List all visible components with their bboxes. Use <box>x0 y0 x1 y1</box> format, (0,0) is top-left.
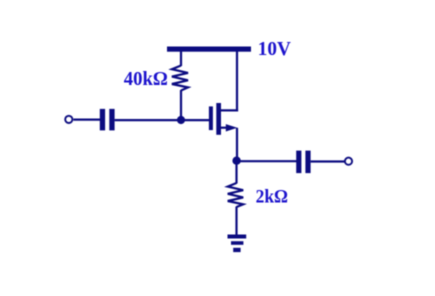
capacitor C2 right plate <box>305 151 310 174</box>
svg-text:2kΩ: 2kΩ <box>256 187 288 208</box>
transistor Q1 source arrow <box>226 124 238 131</box>
svg-text:40kΩ: 40kΩ <box>124 68 168 90</box>
transistor Q1 channel bar <box>216 103 221 135</box>
transistor Q1 drain lead <box>221 109 239 111</box>
wire node to resistor R2 <box>235 162 237 184</box>
wire rail to resistor R1 <box>180 51 182 66</box>
node source junction dot <box>232 157 240 165</box>
svg-text:10V: 10V <box>258 39 291 60</box>
capacitor C1 right plate <box>109 109 114 130</box>
resistor R2 2k zigzag <box>228 183 244 207</box>
power rail VDD bar <box>167 47 251 52</box>
wire drain to rail <box>236 51 238 112</box>
transistor Q1 gate bar <box>209 106 213 130</box>
wire input terminal to capacitor C1 <box>73 118 100 120</box>
transistor Q1 source lead <box>221 127 228 129</box>
resistor R1 40k zigzag <box>172 66 188 91</box>
wire node to capacitor C2 <box>237 160 297 162</box>
label 2kOhm <box>256 187 288 208</box>
label 10V <box>258 39 291 60</box>
ground bar 2 <box>231 241 243 245</box>
wire C1 to gate of Q1 <box>115 119 210 121</box>
wire source to output node <box>236 128 238 162</box>
label 40kOhm <box>124 68 168 90</box>
wire R2 to ground <box>235 207 237 236</box>
ground bar 1 <box>228 235 247 239</box>
capacitor C2 left plate <box>296 151 301 174</box>
input terminal open circle <box>65 116 72 123</box>
wire R1 to gate node <box>180 90 182 120</box>
ground bar 3 <box>233 248 240 252</box>
capacitor C1 left plate <box>100 109 105 130</box>
wire C2 to output terminal <box>311 160 345 162</box>
node gate junction dot <box>177 116 185 124</box>
output terminal open circle <box>345 158 352 165</box>
